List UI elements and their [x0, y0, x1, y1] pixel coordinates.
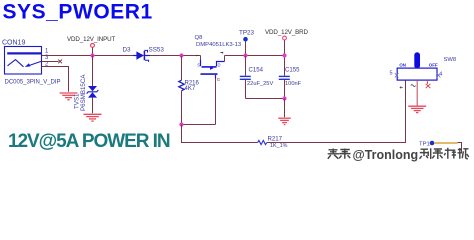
no-connect X on pin 3	[58, 60, 62, 64]
svg-text:22uF_25V: 22uF_25V	[247, 81, 273, 87]
svg-text:1K_1%: 1K_1%	[270, 143, 288, 149]
wire cap bottom rail	[246, 98, 285, 100]
resistor R216 4K7	[179, 56, 200, 125]
svg-text:5: 5	[390, 70, 393, 76]
junction at VDD_12V_BRD	[282, 53, 286, 57]
CJK char long	[432, 148, 443, 159]
middle pin to ground	[416, 80, 418, 105]
CJK char ji	[458, 148, 469, 159]
right pin stub	[426, 80, 428, 84]
svg-text:12V@5A POWER IN: 12V@5A POWER IN	[8, 131, 170, 152]
pin 2 wire to ground	[42, 67, 69, 92]
svg-text:4K7: 4K7	[185, 86, 196, 92]
svg-text:OFF: OFF	[429, 62, 438, 67]
wire gate node down to bottom rail	[182, 125, 258, 143]
svg-text:P6SMB15CA: P6SMB15CA	[80, 74, 87, 111]
junction gate node	[179, 122, 183, 126]
CJK char tou	[328, 149, 339, 159]
svg-text:DC005_3PIN_V_DIP: DC005_3PIN_V_DIP	[5, 80, 61, 86]
ground (CON19 pin2)	[60, 93, 78, 100]
svg-text:D: D	[218, 63, 221, 68]
diode D3 SS53	[123, 47, 165, 62]
transistor Q8 DMP4051LK3-13	[195, 35, 242, 82]
wire R217 to switch	[267, 80, 406, 142]
testpoint TP1	[419, 141, 462, 153]
CJK char ke	[444, 148, 456, 159]
resistor R217 1K_1% (inline)	[258, 136, 288, 150]
svg-text:SW8: SW8	[444, 57, 457, 63]
svg-text:100nF: 100nF	[285, 81, 302, 87]
svg-text:1: 1	[45, 49, 49, 55]
no-connect X bottom right pin	[426, 84, 431, 88]
ground (TVS)	[84, 114, 102, 121]
no-connect X pin5	[395, 73, 399, 78]
body arrow	[210, 66, 214, 70]
svg-text:VDD_12V_INPUT: VDD_12V_INPUT	[67, 36, 116, 43]
svg-text:ON: ON	[399, 62, 406, 67]
svg-text:SYS_PWOER1: SYS_PWOER1	[3, 1, 153, 24]
CJK char chuang	[420, 148, 431, 159]
wire to ground	[284, 99, 286, 118]
svg-text:TP23: TP23	[239, 30, 255, 37]
svg-text:C154: C154	[249, 67, 264, 74]
switch SW8	[390, 52, 457, 105]
TVS1 P6SMB15CA	[74, 74, 99, 111]
svg-text:Q8: Q8	[195, 35, 204, 41]
ground (SW8)	[408, 106, 426, 112]
gate bar	[201, 73, 218, 75]
D pin	[217, 62, 225, 67]
G pin	[215, 75, 217, 79]
wire pin1 to D3 (main input wire)	[42, 55, 134, 57]
S pin	[196, 55, 200, 57]
wire Q8 drain to VDD_12V_BRD	[225, 55, 285, 57]
junction at VDD_12V_INPUT	[90, 53, 94, 57]
pin 3 stub wire	[42, 61, 59, 63]
svg-text:SS53: SS53	[149, 47, 165, 54]
gate net wire to R216 branch	[182, 124, 216, 126]
svg-text:CON19: CON19	[2, 40, 25, 47]
ground (caps)	[278, 118, 291, 124]
svg-text:VDD_12V_BRD: VDD_12V_BRD	[265, 29, 309, 36]
power symbol VDD_12V_INPUT	[67, 36, 116, 56]
wire gate down	[215, 79, 217, 125]
capacitor C155 100nF	[279, 56, 302, 99]
wire D3 to Q8	[150, 55, 201, 57]
CJK char tiao	[339, 149, 350, 159]
svg-text:S: S	[197, 63, 200, 68]
svg-text:G: G	[217, 77, 220, 82]
channel bar	[202, 66, 217, 68]
testpoint TP23	[239, 30, 255, 56]
watermark CJK glyph strokes	[328, 148, 469, 159]
svg-text:TP1: TP1	[419, 142, 430, 148]
svg-text:D3: D3	[123, 47, 132, 54]
wire TVS to ground	[92, 98, 94, 114]
svg-text:DMP4051LK3-13: DMP4051LK3-13	[196, 42, 242, 48]
wire VDD input down to TVS	[92, 56, 94, 87]
svg-text:@Tronlong: @Tronlong	[353, 148, 419, 162]
power symbol VDD_12V_BRD	[265, 29, 309, 56]
junction at cap ground	[282, 96, 286, 100]
connector CON19	[2, 40, 61, 86]
no-connect X pin4	[437, 73, 441, 78]
junction at C154	[243, 53, 247, 57]
svg-text:R217: R217	[268, 136, 283, 143]
junction at R216	[179, 53, 183, 57]
capacitor C154 22uF_25V	[240, 56, 274, 99]
pin decorations	[400, 87, 403, 89]
svg-text:C155: C155	[285, 67, 300, 74]
